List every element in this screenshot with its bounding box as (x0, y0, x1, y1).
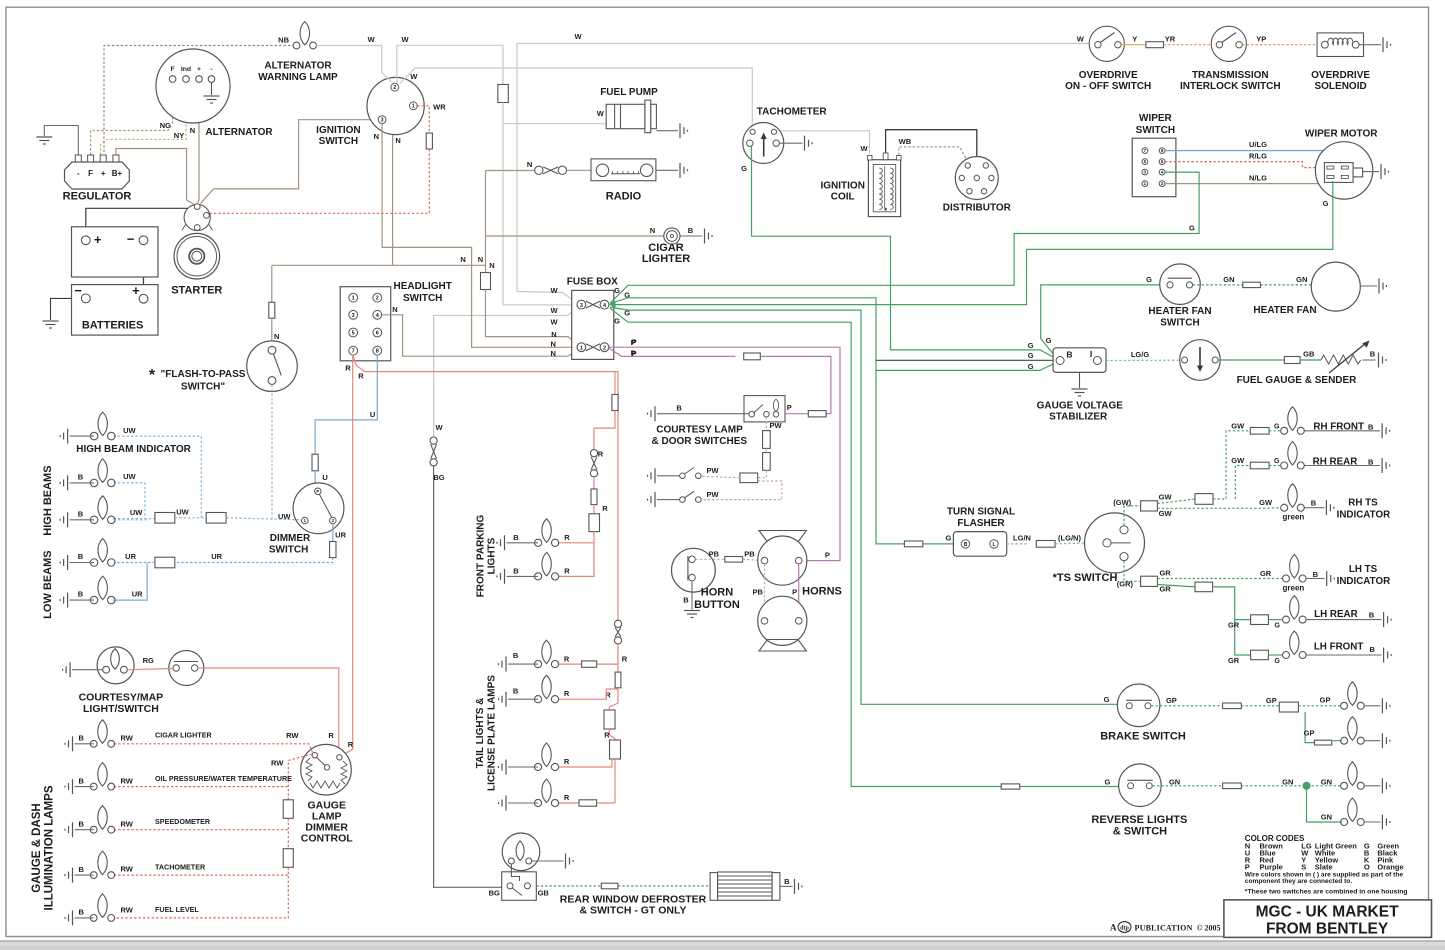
low beam lamp 2 (90, 576, 115, 604)
svg-text:S: S (1301, 862, 1306, 871)
tail lamp 4 (534, 779, 558, 807)
radio (591, 159, 656, 181)
wire N cigar lighter feed (486, 235, 664, 237)
svg-text:UW: UW (123, 426, 136, 435)
svg-text:2: 2 (603, 346, 606, 352)
svg-text:U: U (370, 410, 375, 419)
door switch 2 (696, 497, 702, 503)
svg-text:dtp: dtp (1120, 925, 1129, 931)
svg-text:W: W (368, 35, 376, 44)
wire U headlight pin8 to dimmer F (315, 355, 377, 454)
svg-text:N: N (274, 332, 279, 341)
svg-text:R: R (328, 731, 334, 740)
svg-text:U/LG: U/LG (1249, 140, 1267, 149)
svg-text:CIGAR LIGHTER: CIGAR LIGHTER (155, 730, 213, 739)
svg-text:LICENSE PLATE LAMPS: LICENSE PLATE LAMPS (487, 675, 498, 791)
svg-text:UR: UR (125, 552, 136, 561)
fuel gauge (1180, 340, 1221, 381)
svg-text:FUEL PUMP: FUEL PUMP (600, 87, 658, 98)
svg-text:SWITCH: SWITCH (1160, 317, 1199, 328)
door switch 1 (696, 473, 702, 479)
wire RW speedometer lamp row (114, 829, 288, 831)
high beam lamp 1 (90, 459, 115, 487)
svg-text:SOLENOID: SOLENOID (1314, 81, 1366, 92)
svg-text:5: 5 (352, 331, 355, 337)
illumination lamp fuel level (90, 894, 114, 921)
courtesy map lamp (97, 647, 134, 684)
wire R front parking lamp 1 (559, 542, 594, 544)
LH front lamp (1283, 631, 1307, 659)
wire RW tachometer lamp row (114, 874, 288, 876)
svg-text:+: + (132, 283, 140, 298)
brake lamp 2 (1341, 717, 1365, 745)
alternator (156, 49, 230, 123)
wire B courtesy box to ground (657, 413, 749, 415)
svg-text:F: F (171, 66, 175, 73)
svg-text:*: * (149, 367, 156, 384)
wire N headlight pin4 to fuse box 1 (382, 315, 577, 356)
wire P fuse 2 to courtesy lamp (with fuse) (610, 349, 736, 357)
svg-text:MGC - UK MARKET: MGC - UK MARKET (1256, 904, 1399, 921)
regulator (65, 162, 130, 189)
tachometer (743, 123, 784, 164)
wire W warning lamp to ignition pin2 (316, 46, 392, 83)
svg-text:RW: RW (121, 734, 134, 743)
svg-text:A: A (1110, 923, 1117, 933)
svg-text:REGULATOR: REGULATOR (63, 191, 132, 203)
wire W ignition pin2 to tachometer (400, 68, 752, 129)
wire RW oil pressure lamp row (114, 786, 288, 788)
svg-text:G: G (614, 317, 620, 326)
green arrow at fuse 4 (609, 301, 615, 308)
wire N flash-to-pass switch riser (271, 265, 273, 302)
ground illumination oil (65, 779, 73, 794)
ground LH rear (1384, 612, 1392, 627)
svg-text:TRANSMISSION: TRANSMISSION (1192, 70, 1269, 81)
svg-text:PUBLICATION: PUBLICATION (1135, 924, 1193, 933)
svg-text:WIPER: WIPER (1139, 113, 1173, 124)
ground courtesy map lamp (63, 662, 71, 677)
svg-text:P: P (825, 551, 830, 560)
svg-text:INDICATOR: INDICATOR (1337, 576, 1391, 587)
svg-text:N: N (392, 305, 397, 314)
svg-text:B: B (1370, 350, 1376, 359)
svg-text:(GW): (GW) (1113, 498, 1131, 507)
horn 2 (758, 596, 807, 645)
wire PB horn1 to horn2 (dashed) (764, 564, 766, 615)
svg-text:G: G (741, 164, 747, 173)
wire N starter solenoid past ignition switch to N bus (201, 120, 393, 266)
svg-text:1: 1 (304, 518, 307, 523)
svg-text:CONTROL: CONTROL (301, 832, 353, 844)
svg-text:B: B (1369, 645, 1375, 654)
ground high beam indicator (60, 429, 68, 444)
svg-text:GR: GR (1159, 569, 1171, 578)
svg-text:LH TS: LH TS (1349, 564, 1378, 575)
svg-text:& SWITCH - GT ONLY: & SWITCH - GT ONLY (580, 905, 687, 917)
svg-text:B: B (78, 776, 84, 785)
svg-text:OVERDRIVE: OVERDRIVE (1079, 70, 1138, 81)
svg-text:GW: GW (1159, 509, 1173, 518)
wire defroster lamp ground (532, 860, 564, 862)
svg-text:COIL: COIL (831, 192, 855, 203)
ground illumination speedometer (65, 822, 73, 837)
svg-text:HORNS: HORNS (802, 586, 842, 598)
svg-text:BG: BG (489, 889, 500, 898)
svg-text:3: 3 (352, 313, 355, 319)
wire BG washer connector to defroster switch (434, 466, 502, 887)
svg-text:F: F (316, 489, 319, 494)
svg-text:B: B (1368, 458, 1374, 467)
svg-text:GN: GN (1282, 778, 1293, 787)
svg-text:TAIL LIGHTS &: TAIL LIGHTS & (475, 698, 486, 769)
wire G riser to stabilizer B (dark) (876, 359, 1057, 361)
svg-text:I: I (1090, 349, 1092, 359)
wire P fuse 2 to horns (610, 347, 841, 560)
wire NG regulator F to alternator F (dashed olive) (91, 83, 173, 155)
tail lamp 1 (534, 640, 558, 668)
svg-text:RW: RW (286, 731, 299, 740)
ignition switch (367, 77, 424, 134)
LH TS indicator lamp (1283, 555, 1307, 583)
svg-text:B: B (78, 819, 84, 828)
alternator warning lamp (293, 22, 316, 49)
ground RH front (1382, 423, 1390, 438)
svg-text:& DOOR SWITCHES: & DOOR SWITCHES (652, 436, 748, 447)
svg-text:COURTESY LAMP: COURTESY LAMP (656, 425, 743, 436)
TS switch (1085, 513, 1145, 573)
svg-text:green: green (1283, 512, 1305, 521)
bottom page edge strip (0, 941, 1445, 950)
ground batteries (43, 321, 59, 328)
wire GR to LH TS indicator (dashed) (1157, 578, 1282, 580)
wire PW courtesy lamp to door switches (dashed) (765, 417, 767, 431)
svg-text:R: R (564, 654, 570, 663)
svg-text:GN: GN (1223, 275, 1234, 284)
ground tachometer (805, 136, 813, 151)
reverse lamp 2 (1341, 798, 1365, 826)
tail lamp 3 (534, 743, 558, 771)
ground defroster lamp (566, 854, 574, 869)
wire N alternator + down to starter solenoid (198, 83, 200, 204)
svg-text:R: R (604, 731, 610, 740)
svg-text:SWITCH: SWITCH (319, 136, 358, 147)
courtesy map switch (169, 651, 204, 686)
svg-text:R: R (598, 450, 604, 459)
svg-text:W: W (550, 286, 558, 295)
svg-text:WB: WB (899, 137, 912, 146)
connector tail light feed (614, 620, 621, 644)
wire GR branch LH rear (1235, 619, 1251, 621)
svg-text:+: + (197, 66, 201, 73)
wire heater fan to ground (1360, 285, 1377, 287)
ground fuel pump (680, 123, 688, 138)
high beam lamp 2 (90, 496, 115, 524)
svg-text:G: G (1028, 351, 1034, 360)
svg-text:B: B (78, 473, 84, 482)
illumination lamp cigar lighter (90, 720, 114, 747)
fuse box (572, 290, 614, 359)
svg-text:G: G (945, 534, 951, 543)
svg-text:B: B (513, 651, 519, 660)
svg-text:LIGHTER: LIGHTER (642, 253, 690, 265)
svg-text:G: G (1028, 341, 1034, 350)
svg-text:DISTRIBUTOR: DISTRIBUTOR (943, 203, 1012, 214)
ground low beam 2 (60, 593, 68, 608)
ground fuel sender (1379, 353, 1387, 368)
cigar lighter (664, 228, 680, 244)
svg-text:OVERDRIVE: OVERDRIVE (1311, 70, 1370, 81)
svg-text:"FLASH-TO-PASS: "FLASH-TO-PASS (161, 369, 246, 380)
svg-text:6: 6 (376, 331, 379, 337)
fuse 3-4 (577, 300, 609, 309)
reverse lamp 1 (1341, 762, 1365, 790)
svg-text:NY: NY (174, 131, 184, 140)
wire GP brake switch to brake lamps (dashed) (1151, 705, 1222, 707)
wire W fuse box to overdrive switch (top run) (517, 44, 1094, 292)
wire LG/N flasher to TS switch (dashed) (1007, 543, 1027, 545)
svg-text:N: N (395, 136, 400, 145)
svg-text:YR: YR (1165, 35, 1176, 44)
svg-text:+: + (101, 169, 106, 178)
wire courtesy map lamp ground (72, 669, 103, 671)
wire N bus riser with fuse to fuse box 1 (485, 171, 487, 273)
svg-text:W: W (861, 144, 869, 153)
svg-text:TACHOMETER: TACHOMETER (155, 862, 206, 871)
svg-text:G: G (1274, 458, 1280, 465)
svg-text:B: B (1311, 499, 1317, 508)
wire R tail light chain (617, 644, 619, 672)
ground heater fan (1379, 279, 1387, 294)
svg-text:B: B (513, 533, 519, 542)
wire R branch to front parking lights (614, 372, 616, 395)
svg-text:PW: PW (769, 421, 782, 430)
ground cigar lighter (705, 229, 713, 244)
svg-text:WARNING LAMP: WARNING LAMP (258, 72, 338, 83)
svg-text:HORN: HORN (701, 587, 733, 599)
gauge voltage stabilizer (1053, 348, 1106, 373)
overdrive on-off switch (1089, 26, 1124, 61)
svg-text:R: R (622, 654, 628, 663)
svg-text:BRAKE SWITCH: BRAKE SWITCH (1100, 731, 1186, 743)
svg-text:PB: PB (752, 588, 763, 597)
svg-text:FLASHER: FLASHER (957, 518, 1005, 529)
svg-text:HIGH BEAMS: HIGH BEAMS (42, 465, 54, 535)
svg-text:N: N (460, 255, 465, 264)
fuse 1-2 (577, 343, 609, 352)
svg-text:B: B (78, 865, 84, 874)
ground door switch 1 (648, 468, 656, 483)
ground defroster element (795, 879, 803, 894)
wire R headlight pin7 to parking and tail light feeds (353, 355, 618, 620)
ground stabilizer (1072, 389, 1088, 396)
svg-text:R: R (345, 364, 351, 373)
wire W tachometer to ignition coil (777, 131, 870, 154)
wire R tail lamp row3 (559, 759, 612, 767)
svg-text:Ind: Ind (181, 66, 191, 73)
LH rear lamp (1283, 596, 1307, 624)
svg-text:RH REAR: RH REAR (1313, 457, 1358, 468)
svg-text:W: W (597, 109, 605, 118)
wire NY regulator + to alternator Ind (dashed yellow) (101, 83, 187, 155)
svg-text:W: W (410, 72, 418, 81)
alternator internal ground (211, 82, 213, 95)
svg-text:NB: NB (278, 36, 289, 45)
svg-text:LG/N: LG/N (1013, 534, 1031, 543)
wire N flash-to-pass bus (272, 264, 486, 266)
svg-text:-: - (77, 169, 80, 178)
svg-text:PB: PB (709, 549, 720, 558)
heater fan (1311, 262, 1360, 311)
transmission interlock switch (1211, 26, 1246, 61)
svg-text:GR: GR (1228, 656, 1240, 665)
wire UW high beam bus (dashed) (114, 436, 202, 518)
svg-text:N: N (527, 160, 532, 169)
svg-text:component they are connected t: component they are connected to. (1245, 878, 1353, 885)
wire horn button to ground (691, 581, 693, 610)
wire battery 1 positive to starter solenoid (86, 208, 191, 236)
low beam lamp 1 (90, 539, 115, 567)
svg-text:STABILIZER: STABILIZER (1049, 412, 1108, 423)
svg-text:PW: PW (706, 490, 719, 499)
wire RG courtesy lamp to switch (127, 669, 173, 670)
svg-text:N/LG: N/LG (1249, 174, 1267, 183)
defroster switch (502, 872, 537, 901)
svg-text:G: G (1104, 778, 1110, 787)
svg-text:TACHOMETER: TACHOMETER (757, 107, 828, 118)
wire R tail lamp row1 (559, 663, 582, 665)
wire N radio feed (486, 170, 535, 172)
ground high beam 2 (60, 512, 68, 527)
brake lamp 1 (1341, 682, 1365, 710)
wire P courtesy box to fuse (785, 413, 808, 415)
fuel sender resistor (1321, 355, 1361, 364)
ground LH TS indicator (1327, 571, 1335, 586)
svg-text:P: P (632, 338, 637, 347)
svg-text:GN: GN (1169, 778, 1180, 787)
svg-text:GN: GN (1296, 275, 1307, 284)
svg-text:N: N (550, 349, 555, 358)
RH front lamp (1281, 407, 1305, 435)
svg-text:LIGHTS: LIGHTS (487, 537, 498, 574)
svg-text:GW: GW (1259, 498, 1273, 507)
svg-text:UR: UR (211, 552, 222, 561)
svg-text:R: R (564, 689, 570, 698)
svg-text:FUSE BOX: FUSE BOX (567, 277, 618, 288)
headlight switch (340, 287, 391, 361)
RH rear lamp (1281, 442, 1305, 470)
ground low beam 1 (60, 555, 68, 570)
wire R headlight pin7 down to gauge dimmer (342, 355, 353, 755)
wire wiper motor to ground (1363, 171, 1379, 173)
svg-text:UR: UR (335, 531, 346, 540)
svg-text:UW: UW (176, 508, 189, 517)
ground front parking 1 (497, 535, 505, 550)
svg-text:N: N (650, 226, 655, 235)
svg-text:STARTER: STARTER (171, 285, 222, 297)
svg-text:R: R (564, 793, 570, 802)
svg-text:SWITCH: SWITCH (403, 293, 442, 304)
svg-text:7: 7 (352, 349, 355, 355)
wire N ignition pin3 to fuse box 1 (382, 124, 577, 348)
svg-text:RW: RW (271, 759, 284, 768)
wire G riser lower branch to stabilizer B (876, 362, 1057, 370)
svg-text:R/LG: R/LG (1249, 152, 1267, 161)
svg-text:PW: PW (706, 466, 719, 475)
wire YR fuse to interlock switch (dashed) (1164, 44, 1212, 46)
svg-text:B: B (964, 542, 968, 548)
brake switch (1117, 684, 1160, 727)
svg-text:GN: GN (1321, 813, 1332, 822)
svg-text:B: B (1368, 423, 1374, 432)
svg-text:U: U (322, 473, 327, 482)
svg-text:B: B (688, 226, 694, 235)
ground horn button (684, 611, 700, 618)
svg-text:IGNITION: IGNITION (316, 125, 360, 136)
wire G fuse to stabilizer riser (fan B) (610, 298, 904, 544)
svg-text:UR: UR (132, 590, 143, 599)
svg-text:OIL PRESSURE/WATER TEMPERATURE: OIL PRESSURE/WATER TEMPERATURE (155, 774, 292, 783)
wire UW flash-to-pass to high beam bus (dashed) (271, 385, 273, 518)
svg-text:B: B (683, 596, 689, 605)
svg-text:G: G (1046, 336, 1052, 345)
svg-text:G: G (1146, 275, 1152, 284)
illumination lamp tachometer (90, 851, 114, 878)
wire RW gauge illumination bus (dashed) (288, 754, 312, 800)
svg-text:G: G (1274, 623, 1280, 630)
svg-text:© 2005: © 2005 (1197, 924, 1221, 933)
svg-text:IGNITION: IGNITION (820, 181, 864, 192)
svg-text:GR: GR (1228, 621, 1240, 630)
svg-text:HIGH BEAM INDICATOR: HIGH BEAM INDICATOR (76, 444, 191, 455)
svg-text:RADIO: RADIO (606, 191, 642, 203)
ground courtesy box (648, 406, 656, 421)
ground brake lamp 1 (1382, 698, 1390, 713)
wire stabilizer to ground (1079, 372, 1081, 388)
svg-text:−: − (127, 231, 135, 246)
svg-text:P: P (787, 403, 792, 412)
svg-text:G: G (1274, 423, 1280, 430)
svg-text:P: P (1245, 862, 1250, 871)
svg-text:SWITCH: SWITCH (1136, 125, 1175, 136)
wire defroster element ground (780, 885, 793, 887)
svg-text:*These two switches are combin: *These two switches are combined in one … (1245, 888, 1408, 895)
ground tail lamp 2 (499, 692, 507, 707)
svg-text:N: N (190, 126, 195, 135)
battery 2 (72, 285, 159, 336)
svg-text:F: F (88, 169, 93, 178)
svg-text:P: P (792, 588, 797, 597)
wire LG/G stabilizer I to fuel gauge (dashed) (1106, 359, 1179, 361)
svg-text:green: green (1283, 584, 1305, 593)
svg-text:+: + (94, 232, 102, 247)
svg-text:B: B (78, 552, 84, 561)
wire RW cigar lighter lamp row (114, 744, 313, 753)
svg-text:2: 2 (376, 296, 379, 302)
horn 1 (759, 531, 806, 543)
illumination lamp oil pressure (90, 763, 114, 790)
ground reverse lamp 1 (1382, 778, 1390, 793)
turn signal flasher (953, 532, 1006, 557)
svg-text:B: B (513, 687, 519, 696)
svg-text:3: 3 (381, 118, 384, 124)
wiper switch (1132, 138, 1176, 197)
svg-text:R: R (564, 533, 570, 542)
wire fuel sender to ground (1363, 359, 1376, 361)
svg-text:N: N (478, 255, 483, 264)
ground illumination cigar (65, 736, 73, 751)
wire G fuse to wiper motor (fan C) (613, 181, 1333, 305)
